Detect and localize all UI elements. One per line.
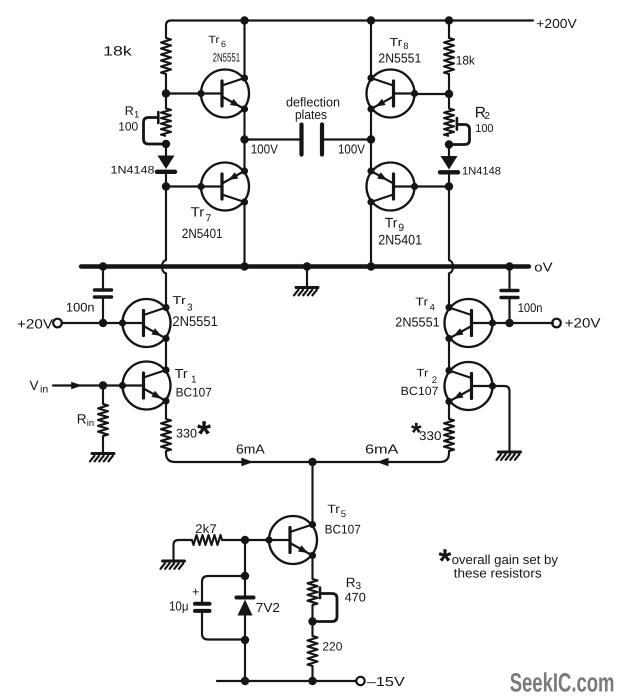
node R2 bottom junction [445,140,453,148]
svg-text:2N5401: 2N5401 [378,231,422,247]
label Tr5 [327,502,346,520]
label +20V left [17,316,53,331]
node Tr8 base junction [445,90,453,98]
svg-text:Tr: Tr [208,34,220,46]
wire +20V to Tr3 base [62,319,123,327]
label Tr6 [208,34,226,49]
terminal +20V right [552,319,561,328]
label 100n right [518,301,543,315]
wire emitter coupling rail [166,451,449,462]
node tail junction [308,458,316,466]
wire Tr7 collector to 0V rail [243,202,245,267]
svg-text:6mA: 6mA [236,441,265,456]
label BC107 Tr1 [176,386,212,400]
transistor Tr1 [119,362,171,410]
label 470 [345,590,366,604]
label 1N4148 right [462,166,501,178]
label asterisk right [411,418,422,448]
svg-text:1N4148: 1N4148 [462,166,501,178]
svg-text:330: 330 [176,427,197,441]
wire Tr3 emitter to Tr1 collector [165,339,167,371]
label BC107 Tr5 [325,522,361,536]
transistor Tr3 [119,299,171,347]
svg-text:R: R [77,412,87,427]
svg-text:Tr: Tr [175,366,189,381]
node Tr6 base junction [162,89,170,97]
diode 1N4148 right [440,156,458,187]
wire -15V rail [217,677,357,685]
label 2k7 [195,522,217,536]
svg-text:these resistors: these resistors [454,566,542,581]
svg-text:Tr: Tr [172,295,186,307]
svg-text:1: 1 [191,375,197,386]
label R1 [125,104,139,121]
label 2N5551 Tr8 [378,51,421,66]
node Tr7 base junction [162,182,170,190]
transistor Tr7 [197,163,249,211]
label 100n left [66,301,95,315]
label 220 [322,639,342,653]
label +200V [536,16,577,31]
svg-text:3: 3 [187,302,193,313]
label 0V [534,260,553,275]
wire Tr5 emitter to R3 [311,556,313,580]
ground Tr2 base [497,452,521,460]
wire Tr9 base [415,185,450,187]
terminal -15V [356,677,364,685]
wire top rail to right 18k [448,21,450,39]
ground 2k7 [161,561,185,569]
wire Tr7 base [166,185,201,187]
svg-text:Tr: Tr [385,215,398,231]
svg-text:100: 100 [118,119,138,133]
svg-text:in: in [40,384,48,396]
wire right chain to Tr4 collector (hop over 0V rail) [449,187,453,309]
label BC107 Tr2 [401,384,439,398]
label R2 [475,105,491,122]
label Tr7 [191,205,212,225]
label deflection plates [286,95,340,122]
label 18k right [456,54,476,68]
wire top rail to Tr8 collector [370,21,372,79]
node R1 bottom junction [162,140,170,148]
label Vin [30,378,49,396]
potentiometer R2 [444,109,470,145]
svg-text:BC107: BC107 [325,522,361,536]
svg-text:Tr: Tr [327,502,339,516]
wire R1 to diode [165,144,167,156]
svg-text:7V2: 7V2 [256,600,280,615]
transistor Tr5 [265,516,317,564]
label 2N5401 Tr7 [182,226,223,241]
svg-text:7: 7 [206,212,212,224]
svg-text:V: V [30,378,39,393]
node zener anode junction [241,636,249,644]
svg-text:Tr: Tr [415,296,428,308]
svg-text:2k7: 2k7 [195,522,217,536]
svg-text:+20V: +20V [565,316,601,331]
svg-text:2N5401: 2N5401 [182,226,223,241]
svg-text:5: 5 [341,509,346,520]
label Rin [77,412,94,430]
wire Tr9 collector to 0V rail [370,202,372,267]
terminal +20V left [53,319,62,328]
node 0V rail junctions [99,262,514,270]
svg-text:18k: 18k [103,44,132,59]
label Tr9 [385,215,405,234]
svg-text:100n: 100n [66,301,95,315]
node 100V right junction [367,135,375,143]
label 10u [169,599,189,614]
svg-text:6: 6 [221,39,226,49]
svg-text:2N5551: 2N5551 [172,313,218,329]
label 2N5551 Tr3 [172,313,218,329]
label 2N5551 Tr4 [395,315,439,330]
wire R2 to diode [448,145,450,157]
svg-text:BC107: BC107 [401,384,439,398]
capacitor 100n right [501,267,518,324]
svg-text:plates: plates [295,107,327,122]
svg-text:100V: 100V [338,142,365,157]
potentiometer R1 [144,109,172,145]
wire left chain to Tr3 collector (hop over 0V rail) [162,187,166,309]
label Tr1 [175,366,197,386]
label 2N5401 Tr9 [378,231,422,247]
svg-text:Tr: Tr [417,368,429,380]
label asterisk left [197,413,211,454]
zener diode 7V2 [237,598,254,641]
diode 1N4148 left [157,156,175,187]
label 1N4148 left [111,164,155,176]
wire Vin to Tr1 base [53,381,123,389]
wire zener to -15V rail [244,640,246,681]
svg-text:–15V: –15V [367,674,405,689]
label Tr3 [172,295,193,313]
node 100V left junction [240,135,248,143]
transistor Tr8 [367,70,419,118]
svg-text:+20V: +20V [17,316,53,331]
wire top rail to Tr6 collector [243,21,245,79]
resistor 220 [308,636,318,666]
label R3 [346,575,362,592]
capacitor 10u [195,576,245,640]
svg-text:in: in [87,418,94,429]
wire 0V rail [81,264,529,268]
svg-text:2N5551: 2N5551 [378,51,421,66]
svg-text:2N5551: 2N5551 [395,315,439,330]
wire 18k to Tr6 base node [165,74,167,109]
svg-text:Tr: Tr [191,205,205,220]
deflection plate left [299,125,303,155]
wire 2k7 to ground [174,540,193,561]
arrow 6mA left [241,458,253,466]
label -15V [367,674,405,689]
svg-text:R: R [125,104,134,118]
arrow 6mA right [377,458,389,466]
transistor Tr9 [367,163,419,211]
svg-text:18k: 18k [456,54,476,68]
wire 220 to -15V rail [311,666,313,681]
resistor 18k right [444,38,454,74]
node Tr9 base junction [445,182,453,190]
svg-text:Tr: Tr [390,37,403,49]
node R3 wiper junction [308,617,316,625]
label 330 right [419,429,442,443]
label 7V2 [256,600,280,615]
resistor 330 right [444,402,454,452]
transistor Tr2 [445,362,497,410]
svg-text:BC107: BC107 [176,386,212,400]
label + polarity [192,585,199,599]
transistor Tr4 [445,299,497,347]
label 100V left [251,142,279,157]
svg-text:470: 470 [345,590,366,604]
svg-text:*: * [197,413,211,454]
svg-text:1N4148: 1N4148 [111,164,155,176]
label Tr2 [417,368,438,386]
svg-text:oV: oV [534,260,553,275]
svg-text:+: + [192,585,199,599]
label 100 right [475,123,493,135]
wire Tr2 base to ground [493,386,510,452]
svg-text:2: 2 [484,111,490,122]
resistor 330 left [161,401,171,451]
svg-text:*: * [439,542,452,579]
resistor 18k left [161,38,171,74]
svg-text:220: 220 [322,639,342,653]
svg-text:SeekIC.com: SeekIC.com [510,667,615,697]
svg-text:6mA: 6mA [365,441,399,456]
deflection plate right [320,125,324,155]
label gain note [452,552,559,581]
label 100V right [338,142,365,157]
svg-text:4: 4 [430,303,435,314]
label +20V right [565,316,601,331]
label 18k left [103,44,132,59]
svg-text:100n: 100n [518,301,543,315]
label 2N5551 Tr6 [213,51,241,65]
wire R3 to junction [311,605,313,636]
resistor Rin [98,386,108,454]
svg-text:100V: 100V [251,142,279,157]
capacitor 100n left [95,267,112,324]
wire Tr6 emitter to Tr7 emitter [243,109,245,171]
wire Tr4 base to +20V [493,319,554,327]
wire Tr8 emitter to Tr9 emitter [370,109,372,171]
label 6mA right [365,441,399,456]
label 330 left [176,427,197,441]
wire Tr5 base [222,536,269,544]
wire right deflection plate lead [324,138,371,140]
label 100 left [118,119,138,133]
label 6mA left [236,441,265,456]
wire Tr8 base [415,93,450,95]
wire 18k to Tr8 base node [448,74,450,109]
label Tr8 [390,37,409,51]
label Tr4 [415,296,435,313]
arrow Vin input [71,382,82,390]
svg-text:330: 330 [419,429,442,443]
wire Tr6 base [166,92,201,94]
svg-text:2N5551: 2N5551 [213,51,241,65]
watermark SeekIC.com [510,667,615,697]
wire +200V supply rail [166,16,533,38]
wire Tr5 base to zener [241,540,249,597]
wire tail to Tr5 collector [311,462,313,525]
svg-text:R: R [346,575,356,590]
label gain note asterisk [439,542,452,579]
wire left deflection plate lead [245,138,300,140]
wire Tr4 emitter to Tr2 collector [448,339,450,371]
transistor Tr6 [197,70,249,118]
svg-text:+200V: +200V [536,16,577,31]
svg-text:100: 100 [475,123,493,135]
ground Rin [90,454,114,462]
svg-text:10μ: 10μ [169,599,189,614]
potentiometer R3 [308,579,338,622]
resistor 2k7 [192,535,222,545]
ground center on 0V rail [294,269,318,296]
